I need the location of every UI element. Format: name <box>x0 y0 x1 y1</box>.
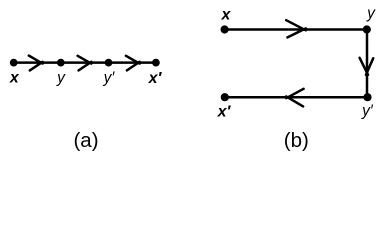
node x (b) <box>221 25 229 33</box>
node y' (b) <box>363 93 371 101</box>
arrowhead (b) y to y' (down) <box>360 58 374 75</box>
svg-text:x′: x′ <box>217 104 232 121</box>
wire (b) right vertical line y to y' <box>366 30 369 98</box>
svg-text:y: y <box>56 70 66 87</box>
wire (a) main horizontal line x to x' <box>14 61 156 64</box>
svg-text:(a): (a) <box>73 129 98 152</box>
svg-text:(b): (b) <box>284 129 309 152</box>
wire (b) top horizontal line x to y <box>225 28 367 31</box>
arrowhead (a) y' to x' <box>126 56 140 71</box>
svg-text:y′: y′ <box>103 70 116 87</box>
svg-text:y: y <box>366 5 376 22</box>
node x (a) <box>10 59 18 67</box>
wire (b) bottom horizontal line y' to x' <box>225 96 368 99</box>
svg-text:x: x <box>9 70 20 87</box>
arrowhead (b) y' to x' (left) <box>286 89 303 107</box>
arrowhead (a) y to y' <box>78 56 92 71</box>
svg-text:y′: y′ <box>361 103 374 120</box>
arrowhead (a) x to y <box>29 56 43 71</box>
node x' (a) <box>152 59 160 67</box>
svg-text:x′: x′ <box>148 70 163 87</box>
node y (b) <box>363 25 371 33</box>
svg-text:x: x <box>221 7 232 24</box>
node x' (b) <box>221 93 229 101</box>
node y' (a) <box>105 59 113 67</box>
node y (a) <box>57 59 65 67</box>
arrowhead (b) x to y <box>286 20 306 37</box>
